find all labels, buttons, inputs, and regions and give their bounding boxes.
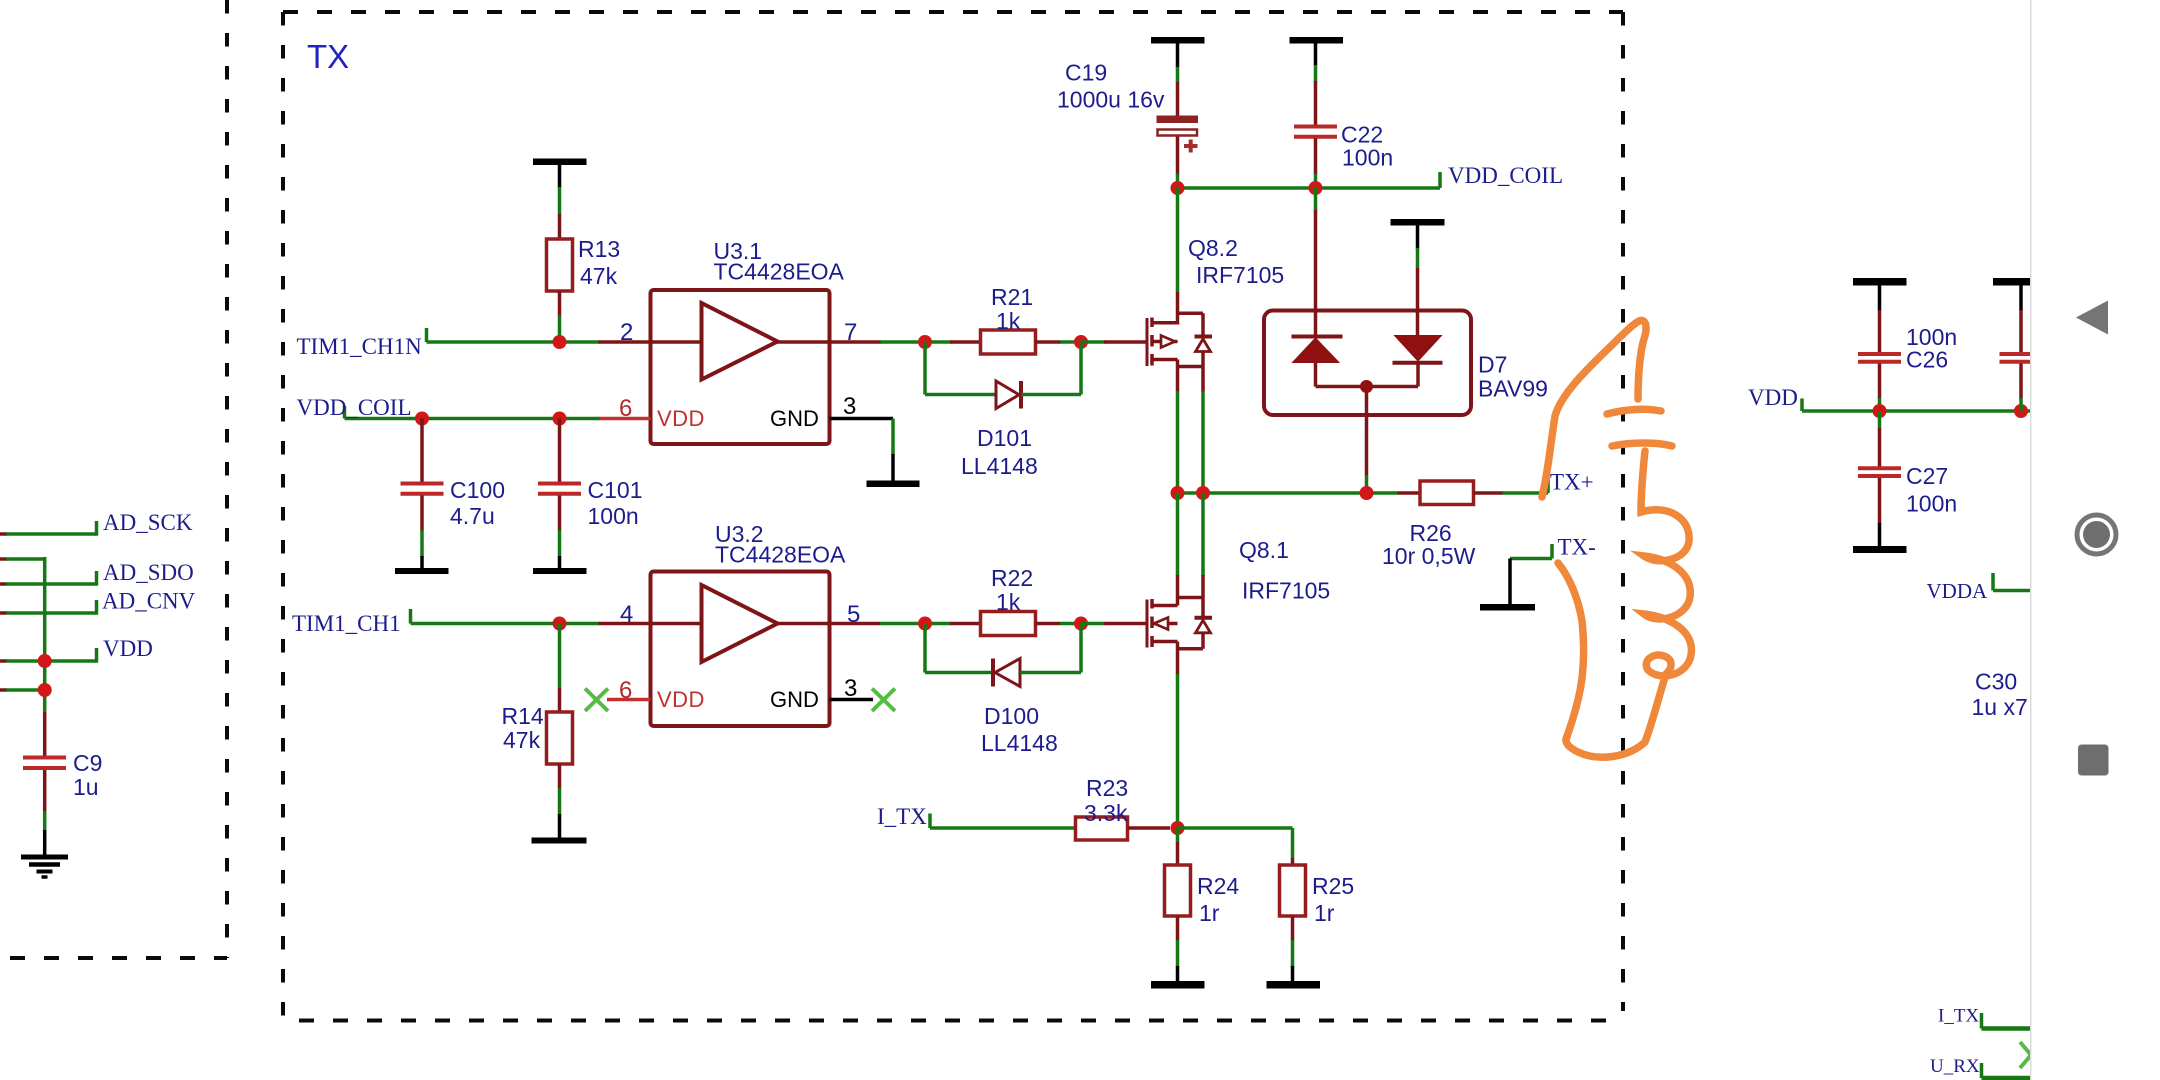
svg-text:4: 4	[620, 601, 633, 628]
app sidebar	[2031, 0, 2160, 1080]
svg-text:C26: C26	[1906, 347, 1948, 373]
capacitor C100	[401, 419, 444, 569]
svg-text:R14: R14	[502, 703, 544, 729]
svg-text:D101: D101	[977, 425, 1032, 451]
nav home button	[2077, 515, 2116, 554]
junction I_TX / R24	[1171, 821, 1185, 835]
no-connect X on U3.2 pin3	[830, 689, 896, 712]
net label VDDA	[1993, 573, 2030, 591]
svg-text:R25: R25	[1312, 873, 1354, 899]
svg-text:C27: C27	[1906, 463, 1948, 489]
resistor R23	[1076, 817, 1171, 840]
transistor Q8.2 (IRF7105 P-channel)	[1081, 292, 1212, 392]
capacitor C22	[1294, 127, 1337, 189]
transistor Q8.1 (IRF7105 N-channel)	[1081, 575, 1212, 675]
junction on VDD row	[38, 654, 52, 668]
wire pin6 red lead	[599, 417, 651, 421]
resistor R22	[925, 612, 1081, 636]
svg-text:C101: C101	[588, 477, 643, 503]
ground bar under C100	[395, 568, 449, 574]
svg-text:I_TX: I_TX	[1938, 1006, 1979, 1027]
resistor R13	[547, 239, 573, 342]
svg-text:47k: 47k	[503, 727, 541, 753]
junction VDD_COIL / C100	[415, 412, 429, 426]
junction TX+ / body diode	[1196, 486, 1210, 500]
svg-text:R13: R13	[578, 236, 620, 262]
svg-text:100n: 100n	[588, 503, 639, 529]
svg-text:GND: GND	[770, 406, 819, 431]
svg-text:1r: 1r	[1199, 900, 1220, 926]
junction C22 / VDD_COIL	[1309, 181, 1323, 195]
capacitor C19 (electrolytic)	[1157, 116, 1199, 189]
svg-text:R23: R23	[1086, 775, 1128, 801]
ground bar below C27	[1853, 546, 1907, 553]
svg-text:LL4148: LL4148	[981, 730, 1058, 756]
hand-drawn annotation: capacitor plate 1	[1607, 409, 1661, 414]
svg-text:TC4428EOA: TC4428EOA	[715, 542, 846, 568]
wire AD_SDO	[0, 571, 97, 586]
ground bar above C19	[1151, 37, 1205, 116]
svg-text:4.7u: 4.7u	[450, 503, 495, 529]
ground bar under U3.1 pin3	[867, 481, 920, 488]
wire VDD_COIL (mid)	[345, 406, 600, 419]
svg-text:1u x7: 1u x7	[1972, 694, 2028, 720]
junction VDD_COIL / C101	[553, 412, 567, 426]
svg-text:3.3k: 3.3k	[1084, 800, 1128, 826]
svg-text:C100: C100	[450, 477, 505, 503]
wire TX+ node down to Q8.1	[1178, 493, 1204, 576]
hand-drawn annotation: capacitor plate 2, coil loops	[1612, 443, 1672, 446]
ground bar under R25	[1267, 981, 1321, 989]
hand-drawn annotation: wire from TX+ up with hook	[1542, 320, 1646, 497]
junction R22 left	[918, 617, 932, 631]
junction TIM1_CH1 / R14	[553, 617, 567, 631]
no-connect X on U3.2 pin6	[585, 689, 651, 712]
ground bar under R24	[1151, 981, 1205, 989]
wire I_TX	[930, 814, 1076, 829]
diode D101	[925, 342, 1081, 409]
wire Q8.2 source down to TX+ node	[1178, 391, 1204, 493]
capacitor C26	[1858, 354, 1901, 411]
svg-text:BAV99: BAV99	[1478, 376, 1548, 402]
svg-text:TIM1_CH1N: TIM1_CH1N	[297, 334, 423, 359]
svg-text:IRF7105: IRF7105	[1196, 262, 1284, 288]
svg-text:LL4148: LL4148	[961, 453, 1038, 479]
svg-text:Q8.1: Q8.1	[1239, 537, 1289, 563]
TX block dashed border	[283, 12, 1623, 1021]
junction R22 right	[1074, 617, 1088, 631]
resistor R14	[547, 624, 573, 839]
svg-text:1000u 16v: 1000u 16v	[1057, 87, 1165, 113]
wire C22 node down to D7	[1314, 188, 1318, 335]
hand-drawn annotation: wire from TX- down	[1558, 563, 1584, 739]
wire U_RX (bottom right)	[1982, 1063, 2031, 1078]
junction VDD / edge cap	[2014, 404, 2028, 418]
earth ground below C9	[21, 857, 68, 877]
wire U3.1 pin3 to ground	[830, 419, 894, 482]
svg-text:U_RX: U_RX	[1930, 1056, 1980, 1077]
svg-text:D100: D100	[984, 703, 1039, 729]
wire TX- stub to ground	[1510, 544, 1552, 604]
junction TX+ / D7	[1360, 486, 1374, 500]
svg-text:3: 3	[843, 393, 856, 420]
power bar above R13	[533, 159, 587, 241]
wire lower branch	[0, 688, 45, 692]
ground bar under C101	[533, 568, 587, 574]
green chevron at edge	[2020, 1042, 2031, 1068]
svg-text:AD_CNV: AD_CNV	[102, 589, 196, 614]
IC U3.1	[651, 290, 830, 444]
wire AD_CNV	[0, 600, 97, 615]
wire AD_SCK	[0, 521, 97, 536]
left block dashed border	[10, 0, 227, 958]
svg-text:VDD: VDD	[1748, 385, 1798, 410]
svg-text:VDDA: VDDA	[1927, 579, 1988, 603]
svg-text:TX: TX	[307, 38, 349, 75]
resistor R24	[1165, 828, 1191, 981]
diode D100	[925, 624, 1081, 687]
svg-text:TIM1_CH1: TIM1_CH1	[292, 611, 401, 636]
svg-text:1k: 1k	[996, 589, 1021, 615]
svg-text:100n: 100n	[1906, 491, 1957, 517]
svg-text:R21: R21	[991, 284, 1033, 310]
svg-text:1u: 1u	[73, 774, 99, 800]
junction R21 left	[918, 335, 932, 349]
resistor R21	[925, 330, 1081, 354]
wire VDD (right)	[1802, 399, 2030, 412]
wire I_TX (bottom right)	[1982, 1013, 2031, 1029]
wire Q8.1 source down	[1176, 674, 1180, 828]
svg-text:VDD: VDD	[657, 406, 705, 431]
svg-text:R24: R24	[1197, 873, 1239, 899]
junction R21 right	[1074, 335, 1088, 349]
junction VDD / C26	[1873, 404, 1887, 418]
svg-text:TX-: TX-	[1558, 535, 1596, 560]
capacitor C27	[1858, 411, 1901, 546]
nav recents button	[2078, 745, 2109, 776]
wire to C9 branch (upper)	[0, 557, 45, 714]
svg-text:VDD_COIL: VDD_COIL	[1448, 163, 1563, 188]
ground bar under R14	[532, 838, 587, 844]
svg-text:1k: 1k	[996, 308, 1021, 334]
wire VDD_COIL down to Q8.2 drain	[1176, 188, 1180, 293]
junction TIM1_CH1N / R13	[553, 335, 567, 349]
hand-drawn annotation: coil body	[1566, 451, 1691, 757]
svg-text:C9: C9	[73, 750, 102, 776]
junction C19 / VDD_COIL	[1171, 181, 1185, 195]
svg-text:47k: 47k	[580, 263, 618, 289]
svg-text:VDD_COIL: VDD_COIL	[297, 395, 412, 420]
svg-text:AD_SCK: AD_SCK	[103, 510, 193, 535]
svg-text:VDD: VDD	[103, 636, 153, 661]
wire U3.2 output	[830, 622, 926, 626]
wire TX+ node	[1178, 491, 1421, 495]
svg-text:GND: GND	[770, 687, 819, 712]
ground bar at TX-	[1480, 604, 1535, 611]
svg-text:C19: C19	[1065, 60, 1107, 86]
ground bar above C26	[1853, 278, 1907, 353]
wire TIM1_CH1	[411, 609, 651, 624]
svg-text:R22: R22	[991, 565, 1033, 591]
diode array D7 (BAV99)	[1264, 311, 1471, 494]
capacitor at screen edge (clipped)	[2000, 354, 2031, 411]
svg-text:1r: 1r	[1314, 900, 1335, 926]
svg-text:TX+: TX+	[1550, 470, 1594, 495]
ground bar above edge capacitor	[1993, 278, 2030, 353]
wire junction to R25	[1178, 828, 1293, 865]
junction TX+ / Q drain	[1171, 486, 1185, 500]
svg-text:I_TX: I_TX	[877, 804, 927, 829]
svg-text:100n: 100n	[1342, 145, 1393, 171]
wire TIM1_CH1N	[427, 328, 651, 342]
nav back button	[2076, 301, 2108, 335]
resistor R25	[1280, 865, 1306, 981]
svg-text:TC4428EOA: TC4428EOA	[714, 259, 845, 285]
wire VDD (left)	[0, 648, 97, 663]
svg-text:Q8.2: Q8.2	[1188, 235, 1238, 261]
ground bar above D7	[1391, 219, 1445, 336]
wire U3.1 output	[830, 340, 926, 344]
resistor R26	[1420, 477, 1548, 505]
ground bar above C22	[1290, 37, 1344, 125]
capacitor C9	[23, 712, 66, 856]
svg-text:D7: D7	[1478, 352, 1507, 378]
junction lower branch	[38, 683, 52, 697]
svg-text:2: 2	[620, 319, 633, 346]
junction inside D7	[1360, 380, 1373, 393]
capacitor C101	[538, 419, 581, 569]
svg-text:10r 0,5W: 10r 0,5W	[1382, 543, 1476, 569]
svg-text:AD_SDO: AD_SDO	[103, 560, 194, 585]
wire VDD_COIL (top)	[1178, 172, 1441, 188]
svg-text:VDD: VDD	[657, 687, 705, 712]
IC U3.2	[651, 572, 830, 727]
svg-text:IRF7105: IRF7105	[1242, 578, 1330, 604]
svg-text:C30: C30	[1975, 669, 2017, 695]
